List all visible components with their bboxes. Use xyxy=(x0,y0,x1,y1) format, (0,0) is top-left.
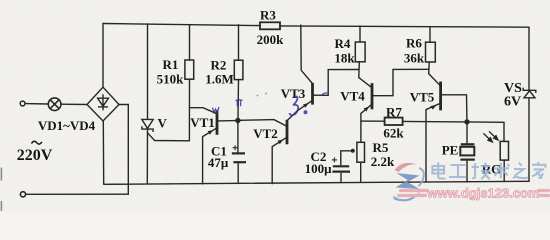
piezo sounder PE xyxy=(460,144,475,159)
wire thyristor anode lead xyxy=(146,129,148,184)
wire R1 top lead xyxy=(189,25,191,60)
logo blue bottom arc xyxy=(393,191,421,202)
wire R5 bottom lead xyxy=(360,162,362,182)
wire bridge bottom lead xyxy=(102,121,104,184)
logo pink arc xyxy=(395,163,417,172)
wire VT1 collector xyxy=(190,108,218,114)
wire bridge right lead down xyxy=(119,105,128,195)
transistor VT4 xyxy=(371,83,374,109)
svg-text:R1: R1 xyxy=(163,57,179,72)
wire VT2 emitter xyxy=(272,137,287,184)
capacitor C2 100u xyxy=(332,157,350,171)
wire VT5 collector diagonal xyxy=(429,74,441,86)
wire VT1 base xyxy=(217,120,236,122)
wire bottom terminal lead xyxy=(26,193,129,195)
wire top rail left xyxy=(103,24,260,26)
svg-text:220V: 220V xyxy=(17,147,53,164)
terminal bottom xyxy=(20,192,25,197)
svg-text:6V: 6V xyxy=(504,95,521,110)
watermark hanzi 技 xyxy=(472,163,491,179)
wire VT1 emitter xyxy=(203,128,217,184)
svg-text:VT5: VT5 xyxy=(410,90,435,105)
svg-text:18k: 18k xyxy=(334,51,355,66)
resistor R5 2.2k xyxy=(357,142,365,162)
svg-text:VT1: VT1 xyxy=(190,115,215,130)
wire VT5 emitter xyxy=(426,103,440,182)
wire thyristor cathode lead xyxy=(147,24,149,119)
wire node A to C1 xyxy=(237,123,239,153)
svg-text:V: V xyxy=(158,116,168,131)
wire VT3 collector xyxy=(301,25,313,83)
transistor VT3 xyxy=(311,83,314,105)
wire R2 bottom lead xyxy=(237,80,240,119)
svg-text:R4: R4 xyxy=(335,36,351,51)
watermark pink bars left xyxy=(399,189,429,192)
wire VT4 emitter xyxy=(361,104,372,142)
wire right rail upper xyxy=(528,27,530,90)
svg-text:VT4: VT4 xyxy=(340,89,365,104)
wire bottom rail xyxy=(104,181,529,184)
node B junction dot xyxy=(464,119,469,124)
svg-text:47μ: 47μ xyxy=(208,155,229,170)
photoresistor RG body xyxy=(500,141,508,160)
svg-text:R6: R6 xyxy=(406,36,422,51)
node A junction dot xyxy=(235,118,240,123)
resistor R7 62k xyxy=(385,118,403,125)
logo blue tail xyxy=(419,168,424,186)
svg-text:36k: 36k xyxy=(404,51,425,66)
label 220V AC tilde xyxy=(32,141,42,144)
resistor R3 200k xyxy=(260,22,280,29)
svg-text:VD1~VD4: VD1~VD4 xyxy=(38,118,96,133)
watermark hanzi 之 xyxy=(513,163,528,178)
wire VT4 collector diagonal xyxy=(359,78,372,88)
wire VT3 base staircase xyxy=(313,70,359,96)
resistor R2 1.6M xyxy=(234,60,243,79)
wire R7 left lead xyxy=(361,120,385,122)
resistor R4 18k xyxy=(355,42,365,62)
wire node A to VT2 base xyxy=(240,120,287,127)
wire R7 right lead xyxy=(403,120,467,123)
wire thyristor gate xyxy=(148,133,190,141)
left edge scan artifacts xyxy=(1,168,3,181)
zener diode VS 6V xyxy=(523,88,536,98)
blue pen scribbles xyxy=(213,93,329,115)
wire C2 top lead xyxy=(341,151,352,165)
resistor R6 36k xyxy=(426,42,436,62)
wire R2 top lead xyxy=(238,25,240,61)
watermark group xyxy=(393,162,550,201)
wire R1 bottom lead to gate xyxy=(188,79,190,141)
resistor R1 510k xyxy=(185,60,194,79)
wire VT3 emitter to VT2 collector xyxy=(287,100,312,120)
watermark hanzi 电 xyxy=(433,162,546,179)
wire node B to RG xyxy=(467,122,504,141)
wire VT5 base xyxy=(441,95,467,120)
thyristor V xyxy=(142,119,153,132)
transistor VT5 xyxy=(439,82,442,111)
svg-text:www.dgjs123.com: www.dgjs123.com xyxy=(426,186,539,201)
watermark hanzi 术 xyxy=(494,163,510,179)
svg-text:R3: R3 xyxy=(260,8,276,23)
svg-text:R2: R2 xyxy=(211,58,227,73)
watermark hanzi 家 xyxy=(532,162,546,179)
wire C2 bottom lead xyxy=(340,174,342,182)
lamp (circle with X) xyxy=(48,98,61,111)
wire bridge top lead xyxy=(102,24,104,88)
svg-text:R7: R7 xyxy=(386,105,402,120)
wire top rail right xyxy=(280,26,529,27)
transistor VT2 xyxy=(286,120,289,145)
wire R4 bottom lead xyxy=(358,62,361,78)
wire bridge left lead xyxy=(61,103,87,105)
wire RG bottom lead xyxy=(503,160,505,181)
logo blue bowtie xyxy=(396,173,420,189)
svg-text:510k: 510k xyxy=(157,72,185,87)
bridge rectifier VD1~VD4 xyxy=(87,87,119,121)
wire R6 bottom lead xyxy=(428,62,431,74)
wire C1 bottom lead xyxy=(237,163,239,183)
svg-text:1.6M: 1.6M xyxy=(205,72,234,87)
transistor VT1 xyxy=(216,110,219,135)
wire R6 top lead xyxy=(429,27,431,43)
svg-text:200k: 200k xyxy=(257,32,285,47)
C2 arrow dot to R5 xyxy=(351,149,355,153)
terminal top xyxy=(20,101,25,106)
svg-text:62k: 62k xyxy=(383,126,404,141)
wire right rail lower xyxy=(528,98,530,181)
watermark hanzi 工 xyxy=(449,165,467,177)
svg-text:VT2: VT2 xyxy=(253,126,278,141)
wire lamp to terminal xyxy=(25,103,48,105)
capacitor C1 47u xyxy=(232,145,246,162)
svg-text:2.2k: 2.2k xyxy=(371,154,395,169)
svg-text:VT3: VT3 xyxy=(281,86,306,101)
svg-text:PE: PE xyxy=(442,143,459,158)
svg-text:100μ: 100μ xyxy=(305,161,333,176)
svg-text:R5: R5 xyxy=(373,140,389,155)
light arrows into RG xyxy=(483,131,498,142)
watermark pink bars right xyxy=(537,189,550,192)
wire VT4 base staircase xyxy=(372,69,428,95)
wire PE bottom lead xyxy=(466,161,468,182)
wire R4 top lead xyxy=(359,26,361,42)
wire PE top lead xyxy=(466,124,468,143)
